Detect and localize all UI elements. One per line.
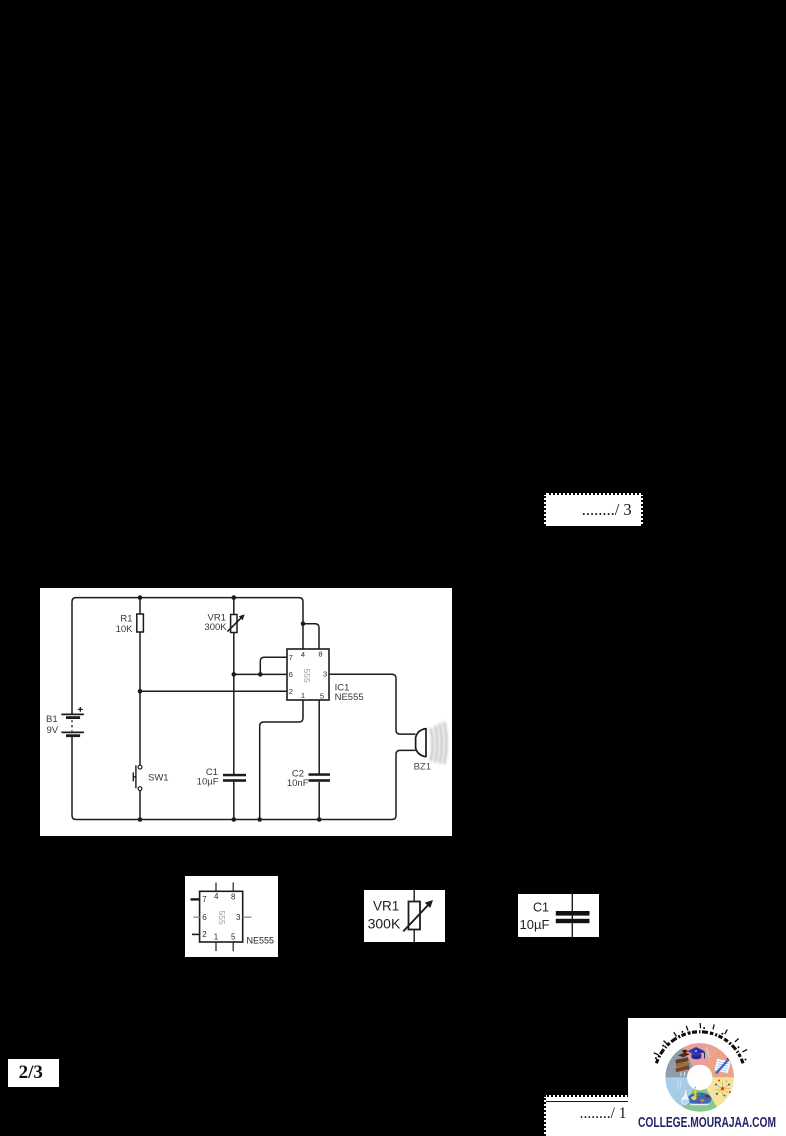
capacitor C1: [223, 774, 246, 782]
svg-text:9V: 9V: [47, 725, 59, 736]
resistor VR1 body: [409, 902, 421, 930]
svg-text:555: 555: [302, 669, 312, 683]
IC1 555 body: [287, 649, 329, 700]
VR1 component box: [364, 890, 445, 942]
labels: [46, 612, 431, 789]
svg-text:3: 3: [236, 913, 241, 922]
calligraphy ascender ticks: [654, 1023, 747, 1055]
svg-text:555: 555: [217, 911, 227, 925]
svg-text:VR1: VR1: [373, 899, 399, 914]
paper and pen icon: [714, 1058, 730, 1073]
pin stubs: [191, 883, 234, 952]
ring sector lightblue lower-left: [665, 1077, 693, 1107]
logo box: [628, 1018, 786, 1136]
books icon: [675, 1049, 690, 1076]
svg-text:1: 1: [301, 691, 305, 700]
svg-text:C1: C1: [533, 901, 549, 915]
pencil in pink sector: [706, 1048, 709, 1058]
svg-text:3: 3: [323, 670, 327, 679]
svg-text:10µF: 10µF: [520, 917, 550, 932]
sound waves: [431, 722, 447, 764]
arabic calligraphy arc: [656, 1032, 743, 1064]
buzzer BZ1: [416, 728, 426, 757]
schematic panel: [40, 588, 452, 836]
C1 component box: [518, 894, 599, 937]
junction dots: [138, 595, 322, 822]
arrow: [403, 904, 429, 932]
svg-text:5: 5: [231, 932, 236, 941]
NE555 pinout box: [185, 876, 278, 957]
svg-text:NE555: NE555: [335, 692, 364, 703]
calligraphy dots: [655, 1027, 747, 1060]
wire VR1 branch: [233, 598, 235, 820]
svg-text:2: 2: [289, 687, 293, 696]
IC pin numbers: [289, 650, 327, 701]
IC body: [200, 891, 243, 942]
switch SW1: [133, 765, 142, 790]
svg-text:5: 5: [320, 692, 324, 701]
world map icon: [688, 1093, 712, 1106]
svg-text:8: 8: [318, 650, 322, 659]
svg-text:8: 8: [231, 893, 236, 902]
labels: [520, 901, 550, 932]
svg-text:6: 6: [289, 670, 293, 679]
svg-text:300K: 300K: [368, 916, 401, 932]
ring sector yellow lower-right: [706, 1077, 734, 1107]
marks box top (....... / 3): [544, 493, 643, 526]
wire R1 branch: [139, 598, 141, 820]
wire pin8 elbow: [303, 624, 319, 649]
svg-text:SW1: SW1: [148, 773, 169, 784]
battery B1: [61, 707, 84, 736]
svg-text:2: 2: [202, 930, 207, 939]
flask icon: [677, 1079, 696, 1106]
resistor VR1: [227, 614, 244, 632]
wire pin5/C2: [318, 700, 320, 820]
svg-text:7: 7: [289, 653, 293, 662]
resistor R1: [137, 614, 144, 632]
ring sector pink top: [683, 1043, 717, 1066]
svg-text:6: 6: [202, 913, 207, 922]
wire bottom rail with buzzer rise: [72, 736, 416, 820]
svg-text:B1: B1: [46, 714, 58, 725]
page number 2/3: [8, 1059, 59, 1087]
svg-text:10nF: 10nF: [287, 778, 309, 789]
capacitor C2: [309, 773, 331, 782]
ring sector slate upper-left: [665, 1048, 693, 1078]
svg-text:1: 1: [214, 932, 219, 941]
labels: [368, 899, 401, 932]
graduation cap icon: [688, 1047, 706, 1059]
svg-text:10µF: 10µF: [197, 777, 219, 788]
ring sector salmon upper-right: [706, 1048, 734, 1078]
marks box bottom: [544, 1095, 629, 1136]
capacitor C1 plates: [556, 911, 590, 916]
wire pin3 to buzzer: [329, 674, 416, 734]
svg-text:7: 7: [202, 895, 207, 904]
wire pin7 elbow: [260, 657, 287, 674]
network scribble icon: [715, 1080, 731, 1097]
svg-text:BZ1: BZ1: [414, 762, 431, 773]
wire top rail with pin4 drop: [72, 598, 303, 714]
ring sector green bottom: [683, 1088, 717, 1111]
svg-text:4: 4: [214, 892, 219, 901]
wire: [413, 890, 415, 942]
svg-text:10K: 10K: [116, 624, 134, 635]
wire pin1 elbow: [260, 700, 303, 820]
wire pin2: [140, 690, 287, 692]
pin numbers: [202, 892, 241, 941]
svg-text:4: 4: [301, 650, 305, 659]
svg-text:NE555: NE555: [247, 936, 275, 946]
wire pin6: [234, 673, 287, 675]
wire: [571, 894, 573, 937]
svg-text:300K: 300K: [204, 622, 227, 633]
